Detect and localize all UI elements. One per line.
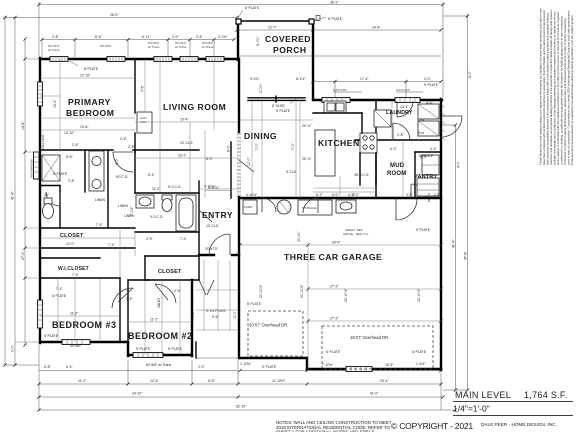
svg-text:47'-8": 47'-8"	[464, 251, 468, 260]
svg-text:2'-8": 2'-8"	[434, 193, 442, 197]
svg-text:4'-10¾": 4'-10¾"	[246, 193, 258, 197]
svg-text:6' PLATE: 6' PLATE	[326, 350, 341, 354]
overhead door 16x7 dashed	[322, 326, 433, 369]
wall: entry bottom / front wall	[199, 254, 214, 256]
extra density: kitchen hall dims	[313, 176, 376, 198]
window spec labels top	[48, 41, 214, 52]
svg-text:41'-8": 41'-8"	[11, 191, 15, 200]
svg-text:6'-8": 6'-8"	[208, 379, 216, 383]
svg-text:LINEN: LINEN	[118, 204, 129, 208]
svg-text:9'0 C.G.: 9'0 C.G.	[116, 175, 128, 179]
svg-text:9'-0¾": 9'-0¾"	[250, 77, 260, 81]
window: left wall bath	[30, 152, 40, 179]
door: garage to mud room	[396, 198, 417, 220]
fixture: mud room bench lockers	[422, 155, 439, 175]
svg-text:2'-6": 2'-6"	[120, 137, 128, 141]
svg-text:2'-6": 2'-6"	[68, 179, 76, 183]
svg-text:6' PLATE: 6' PLATE	[412, 350, 427, 354]
title: main level	[453, 390, 573, 427]
wall: hall closet bottom	[40, 247, 135, 249]
wall: closet east	[198, 256, 200, 280]
svg-text:41'-8": 41'-8"	[452, 239, 456, 248]
window: kitchen sink top wall	[322, 98, 350, 103]
svg-text:16'-8": 16'-8"	[385, 363, 394, 367]
svg-text:4'-4": 4'-4"	[426, 101, 434, 105]
svg-text:17'-4": 17'-4"	[360, 77, 369, 81]
dim line: hall bath internals	[95, 198, 188, 241]
wall: pantry top	[415, 151, 441, 153]
svg-text:SPACE - SEE O.G.: SPACE - SEE O.G.	[343, 232, 369, 236]
wall: spine center vertical	[238, 59, 240, 358]
svg-text:20'-¾": 20'-¾"	[302, 157, 312, 161]
svg-text:7'-0": 7'-0"	[255, 142, 259, 150]
svg-text:7'-4": 7'-4"	[56, 287, 64, 291]
porch post right	[309, 19, 314, 24]
dim line: bottom row 3	[39, 392, 443, 397]
svg-text:2'-8": 2'-8"	[397, 133, 405, 137]
svg-text:2'-0": 2'-0"	[172, 35, 180, 39]
svg-text:9'-0 C.G.: 9'-0 C.G.	[168, 185, 182, 189]
svg-text:6'-2": 6'-2"	[316, 193, 324, 197]
wall hatch: right wall upper	[441, 104, 445, 140]
svg-text:PRIMARY: PRIMARY	[68, 97, 111, 107]
archway: spine dashed opening	[238, 133, 241, 196]
svg-text:20'-10½": 20'-10½"	[300, 284, 304, 298]
svg-text:7'-0": 7'-0"	[291, 142, 295, 150]
svg-text:2'-9": 2'-9"	[126, 297, 134, 301]
svg-text:16'X7' Overhead DR.: 16'X7' Overhead DR.	[350, 335, 389, 340]
wall: toilet room	[40, 185, 60, 187]
svg-text:27'-2": 27'-2"	[330, 285, 339, 289]
wall: entry porch bottom slab	[196, 357, 239, 359]
disclaimer vertical text	[539, 8, 575, 165]
dim line: right section window positions	[296, 77, 441, 97]
wall: closet bed2 top	[145, 255, 199, 257]
svg-text:9' PLATE: 9' PLATE	[276, 109, 291, 113]
fireplace GAS LOG	[137, 112, 152, 133]
svg-text:5'-6": 5'-6"	[66, 155, 74, 159]
wall: garage bottom left bay	[240, 357, 307, 359]
svg-text:8'-0": 8'-0"	[206, 157, 214, 161]
svg-text:1'-10½": 1'-10½"	[240, 362, 252, 366]
fixture: pantry shelves	[417, 178, 439, 196]
svg-text:COVERED: COVERED	[265, 34, 311, 44]
extra density: misc labels scattered	[56, 118, 442, 318]
svg-text:MUD: MUD	[390, 163, 405, 169]
svg-text:w/ Trans: w/ Trans	[48, 48, 60, 52]
wall: hall bath west	[134, 150, 136, 193]
wall: top left section	[40, 58, 238, 60]
svg-text:7'-1½": 7'-1½"	[130, 206, 134, 216]
svg-text:11'-2": 11'-2"	[70, 312, 79, 316]
wall: hall east x231	[230, 142, 232, 198]
svg-text:10'-6": 10'-6"	[80, 125, 89, 129]
svg-text:w/ Trans: w/ Trans	[148, 45, 160, 49]
svg-text:30"x50": 30"x50"	[70, 344, 82, 348]
svg-text:KITCHEN: KITCHEN	[318, 138, 360, 148]
extra density: dining dim verticals	[252, 100, 296, 198]
svg-text:12'-4": 12'-4"	[150, 379, 159, 383]
wall: kitchen/mud divider	[355, 139, 376, 141]
svg-text:5'-0¾": 5'-0¾"	[259, 83, 263, 93]
fixture: hall bath toilet	[162, 195, 172, 212]
svg-text:6'-0¾": 6'-0¾"	[256, 36, 260, 46]
svg-text:51'-0": 51'-0"	[370, 392, 379, 396]
extra density: bedroom2 verticals	[145, 280, 180, 355]
svg-text:4'-0": 4'-0"	[457, 160, 461, 168]
fixture: primary vanity double sinks	[89, 151, 104, 191]
svg-text:3'0"x7'0": 3'0"x7'0"	[205, 247, 219, 251]
fixture: kitchen sink	[324, 101, 346, 113]
dim line: left outer verticals	[5, 18, 39, 366]
svg-text:9'-6": 9'-6"	[191, 310, 195, 318]
fixture: furnace	[243, 200, 257, 214]
door: bath pocket door	[44, 192, 60, 206]
svg-text:8'0 5/8" w/ Trans: 8'0 5/8" w/ Trans	[146, 363, 171, 367]
window: laundry top wall	[395, 98, 420, 103]
svg-text:LINEN: LINEN	[95, 198, 106, 202]
svg-text:HIGH FB/45: HIGH FB/45	[41, 134, 45, 150]
door: pantry door	[411, 184, 425, 198]
window: top wall w3	[154, 57, 172, 62]
dim line: bottom row 1 garage	[39, 363, 441, 371]
dim line: closet labels	[58, 233, 89, 277]
fixture: kitchen counters top	[313, 112, 362, 114]
wall: primary bath bottom / closet top	[40, 227, 135, 229]
dim line: garage internals	[240, 241, 441, 369]
door: mud room exterior right	[441, 116, 462, 137]
svg-text:3'-6": 3'-6"	[406, 193, 414, 197]
door: laundry door	[393, 123, 410, 140]
door: bedroom3 door	[112, 288, 133, 308]
wall: porch right / dining west edge	[312, 20, 314, 99]
svg-text:DALE PEER - HOME DESIGN, INC.: DALE PEER - HOME DESIGN, INC.	[481, 422, 557, 427]
dim line: second top left section	[5, 13, 237, 365]
svg-text:ROOM: ROOM	[387, 171, 406, 177]
svg-text:7'-4": 7'-4"	[108, 243, 116, 247]
svg-text:ENTRY: ENTRY	[202, 210, 233, 220]
wall: primary bath top	[40, 149, 113, 151]
wall: living room bottom / hall bath top	[135, 192, 199, 194]
svg-text:2'-9": 2'-9"	[174, 289, 182, 293]
svg-text:6' PLATE: 6' PLATE	[52, 294, 67, 298]
dim: hall width	[205, 130, 231, 198]
svg-text:12'-0": 12'-0"	[66, 242, 75, 246]
svg-text:CLOSET: CLOSET	[158, 269, 182, 275]
dim line: bottom overall 52'-10"	[39, 405, 455, 410]
svg-text:8'-0": 8'-0"	[227, 144, 231, 152]
svg-text:10' CLG.: 10' CLG.	[206, 224, 219, 228]
door: bedroom2 door	[155, 284, 176, 303]
svg-text:6'-0": 6'-0"	[390, 147, 398, 151]
svg-text:26'-0": 26'-0"	[110, 13, 119, 17]
svg-text:8'-6": 8'-6"	[95, 35, 103, 39]
door: laundry back door	[397, 101, 413, 117]
svg-text:5' PLATE: 5' PLATE	[136, 347, 151, 351]
wall: bedroom2 top	[128, 279, 148, 281]
svg-text:2'-2": 2'-2"	[198, 365, 206, 369]
svg-text:VAULT: VAULT	[157, 298, 161, 308]
svg-text:14'-4": 14'-4"	[372, 26, 381, 30]
svg-text:11'-2": 11'-2"	[150, 318, 159, 322]
door: garage storage double doors	[262, 198, 276, 212]
wall: garage top inner (mud room south)	[376, 197, 441, 199]
svg-text:20'X7' Overhead DR.: 20'X7' Overhead DR.	[249, 323, 288, 328]
door: primary bedroom to hall	[113, 152, 133, 172]
svg-text:7'-4": 7'-4"	[96, 223, 104, 227]
wall: right exterior	[440, 99, 442, 370]
svg-text:2'-0": 2'-0"	[233, 310, 237, 318]
svg-text:7'-4": 7'-4"	[72, 273, 80, 277]
svg-text:1'-4½": 1'-4½"	[416, 362, 426, 366]
porch interior labels	[250, 36, 296, 113]
svg-text:8' PLATE: 8' PLATE	[168, 347, 183, 351]
dim line: right outer verticals	[441, 14, 472, 390]
fixture: garage sink	[336, 200, 356, 213]
svg-text:6'-0": 6'-0"	[332, 193, 340, 197]
fixture: water heater	[277, 200, 291, 214]
svg-text:27'-2": 27'-2"	[330, 317, 339, 321]
dim extension connectors left	[5, 18, 40, 343]
wall: bedroom2 west step	[127, 342, 129, 356]
wall: top right section	[313, 99, 442, 101]
svg-text:BEDROOM #2: BEDROOM #2	[128, 331, 193, 341]
wall: left exterior	[39, 58, 41, 343]
wall: bedroom3 bottom	[40, 341, 128, 343]
svg-text:11'-2": 11'-2"	[78, 379, 87, 383]
svg-text:PANTRY: PANTRY	[414, 174, 437, 180]
svg-text:24": 24"	[44, 193, 50, 197]
svg-text:w/ Trans: w/ Trans	[175, 45, 187, 49]
dim line: living room internals	[135, 59, 238, 193]
svg-text:11'-2": 11'-2"	[152, 187, 161, 191]
wall: entry west	[198, 181, 200, 256]
svg-text:20'-4": 20'-4"	[380, 379, 389, 383]
svg-text:36'-2": 36'-2"	[330, 1, 339, 5]
wall: closet bed2 west	[144, 256, 146, 280]
window: top wall w4	[180, 57, 198, 62]
wall: bath/hall divider vertical	[84, 150, 86, 192]
svg-text:LAUNDRY: LAUNDRY	[386, 110, 413, 116]
dim line: bath internals	[41, 134, 128, 183]
dim line: entry internals	[199, 185, 239, 251]
wall: closet2 band	[40, 257, 100, 259]
dim line: kitchen internals	[300, 100, 376, 198]
label 8' PLATE top	[238, 6, 260, 18]
svg-text:9' PLATE: 9' PLATE	[424, 83, 439, 87]
extra density: entry stoop lines	[196, 310, 239, 330]
dim tick slashes	[3, 3, 469, 412]
dim line: garage bottom plates	[240, 350, 427, 366]
window: dining slider to porch	[248, 96, 305, 102]
svg-text:14'-8": 14'-8"	[21, 121, 25, 130]
svg-text:THREE CAR GARAGE: THREE CAR GARAGE	[284, 252, 382, 262]
svg-text:DINING: DINING	[244, 131, 277, 141]
dim line: bottom row 2	[39, 345, 441, 410]
wall: entry porch east edge	[195, 342, 197, 358]
svg-text:35'-0 C.G.: 35'-0 C.G.	[354, 173, 369, 177]
svg-text:9' PLATE: 9' PLATE	[416, 228, 431, 232]
eave line above right section	[239, 55, 441, 57]
svg-text:4'-4": 4'-4"	[430, 147, 438, 151]
svg-text:10' CLG.: 10' CLG.	[180, 141, 193, 145]
svg-text:8' PLATE: 8' PLATE	[247, 302, 262, 306]
svg-text:20'-¾": 20'-¾"	[302, 124, 312, 128]
fixture: hall bath sink	[136, 195, 154, 208]
wall: bedroom2 east	[191, 280, 193, 356]
svg-text:8'-0": 8'-0"	[468, 70, 472, 78]
dim line: laundry / mud internals	[390, 101, 434, 232]
svg-text:9'-0 C.G.: 9'-0 C.G.	[150, 215, 164, 219]
svg-text:8' PLATE: 8' PLATE	[245, 6, 260, 10]
svg-text:20'-10½": 20'-10½"	[259, 284, 263, 298]
svg-text:PORCH: PORCH	[273, 45, 307, 55]
svg-text:11'-10½": 11'-10½"	[272, 379, 286, 383]
extra density: bedroom3 verticals	[58, 278, 100, 342]
dim line: dining internals	[239, 100, 313, 198]
svg-text:12'-7": 12'-7"	[268, 26, 277, 30]
svg-text:13'-2": 13'-2"	[53, 99, 57, 108]
wall: primary bedroom / living room divider	[134, 59, 136, 113]
wall: hall bath bottom	[135, 231, 199, 233]
svg-text:BOLTS: BOLTS	[427, 193, 431, 202]
fixture: fridge	[374, 110, 391, 127]
svg-text:9'-6": 9'-6"	[212, 315, 220, 319]
svg-text:8'-1½": 8'-1½"	[296, 77, 306, 81]
dim line: misc left bottom plates	[44, 294, 183, 367]
svg-text:12'-0": 12'-0"	[247, 157, 251, 166]
svg-text:6'-11": 6'-11"	[142, 35, 151, 39]
extra density: dining labels	[255, 142, 295, 150]
svg-text:2'-8": 2'-8"	[52, 35, 60, 39]
svg-text:9'-1½ PLATE: 9'-1½ PLATE	[206, 309, 227, 313]
svg-text:1,764 S.F.: 1,764 S.F.	[524, 390, 568, 400]
svg-text:w/ Trans: w/ Trans	[202, 45, 214, 49]
svg-text:22'-10½": 22'-10½"	[344, 288, 348, 302]
svg-text:4'x4': 4'x4'	[418, 118, 425, 122]
window spec labels right section	[333, 88, 423, 92]
label: 8' PLATE leader top-left wall	[70, 61, 99, 71]
fixture: primary toilet	[43, 198, 54, 219]
svg-text:2-0'0"x4'0": 2-0'0"x4'0"	[396, 88, 410, 92]
wall: porch top	[237, 20, 314, 22]
svg-text:8' SLDR: 8' SLDR	[272, 104, 285, 108]
svg-text:6' PLATE: 6' PLATE	[328, 17, 343, 21]
svg-text:2'-9": 2'-9"	[146, 237, 154, 241]
fixture: washer dryer	[418, 104, 439, 136]
wall: closet bed2 bottom	[145, 279, 199, 281]
wall: vanity wall vertical	[107, 150, 109, 228]
fixture: verify ref space dashed	[340, 200, 369, 236]
svg-text:9' PLATE: 9' PLATE	[262, 365, 277, 369]
svg-text:2'-8": 2'-8"	[72, 143, 80, 147]
dim line: bedroom2 internals	[128, 280, 192, 355]
extra density: laundry/mud verticals	[392, 100, 403, 198]
svg-text:2'-8": 2'-8"	[128, 145, 136, 149]
svg-text:Code and all local amendments: Code and all local amendments as require…	[570, 15, 574, 165]
wall: bedroom2 bottom	[128, 354, 192, 356]
svg-text:8' PLATE: 8' PLATE	[53, 172, 68, 176]
dim line: 14'-4" right top	[313, 16, 441, 31]
fixture: kitchen counter right	[360, 113, 376, 185]
svg-text:9' CLG.: 9' CLG.	[286, 170, 297, 174]
wall: porch left	[237, 20, 239, 60]
svg-text:2'-0": 2'-0"	[424, 77, 432, 81]
wall: bedroom3 east	[119, 278, 121, 342]
window: garage rear wall	[346, 367, 372, 372]
fixture: primary shower	[42, 155, 60, 181]
svg-text:BEDROOM: BEDROOM	[66, 108, 114, 118]
svg-text:27'-0": 27'-0"	[21, 251, 25, 260]
dim line: top window positions	[42, 35, 234, 57]
overhead door 20x7 dashed	[248, 311, 303, 356]
wall: laundry west	[375, 100, 377, 198]
fixture: kitchen range/cooktop	[360, 133, 377, 153]
dim line: misc right of entry	[196, 260, 239, 330]
svg-text:© COPYRIGHT - 2021: © COPYRIGHT - 2021	[391, 421, 473, 431]
wall: garage bottom right bay	[307, 368, 441, 370]
porch post left	[236, 19, 241, 24]
door: closet bed2 doors	[199, 280, 214, 295]
svg-text:8' PLATE: 8' PLATE	[84, 67, 99, 71]
svg-text:16'-2": 16'-2"	[178, 154, 187, 158]
svg-text:2'-0": 2'-0"	[11, 344, 15, 352]
svg-text:5'0"x5'0": 5'0"x5'0"	[100, 44, 111, 48]
wall: garage top	[239, 197, 441, 199]
svg-text:1/4"=1'-0": 1/4"=1'-0"	[453, 404, 490, 414]
extra density: living room tick verticals	[190, 59, 214, 193]
svg-text:12'-10": 12'-10"	[64, 131, 75, 135]
svg-text:4'-1½": 4'-1½"	[218, 35, 228, 39]
window: top wall w2	[107, 57, 125, 62]
svg-text:30'-4": 30'-4"	[332, 241, 341, 245]
svg-text:LIVING ROOM: LIVING ROOM	[163, 102, 226, 112]
title: notes bottom left	[276, 420, 392, 432]
window: bedroom3 bottom	[62, 340, 90, 345]
svg-text:5'-4": 5'-4"	[66, 365, 74, 369]
extra density: hall area lines	[40, 228, 135, 278]
wall: laundry south / mud room top	[376, 139, 441, 141]
svg-text:7'-4": 7'-4"	[180, 237, 188, 241]
svg-text:W.I.CLOSET: W.I.CLOSET	[58, 266, 89, 272]
dim line: porch width 12'-7"	[237, 26, 313, 30]
svg-text:BEDROOM #3: BEDROOM #3	[52, 320, 117, 330]
dim line: primary bedroom internals	[40, 59, 135, 152]
extra density: primary bedroom closet lines	[40, 96, 135, 118]
svg-text:4'-0": 4'-0"	[348, 193, 356, 197]
fixture: kitchen island	[315, 130, 335, 176]
svg-text:4'x4': 4'x4'	[418, 131, 425, 135]
fixture: hall bath tub	[176, 195, 196, 231]
svg-text:2'-6": 2'-6"	[196, 35, 204, 39]
svg-text:17'-10": 17'-10"	[80, 74, 91, 78]
door: garage closet door 2	[303, 198, 318, 213]
svg-text:4'-10¾": 4'-10¾"	[204, 185, 216, 189]
svg-text:52'-10": 52'-10"	[236, 405, 247, 409]
wall: pantry west	[414, 152, 416, 198]
svg-text:20'-10": 20'-10"	[297, 231, 301, 242]
wall: garage bottom step	[306, 358, 308, 369]
svg-text:7'-6": 7'-6"	[141, 84, 145, 92]
svg-text:4'-0": 4'-0"	[115, 157, 119, 165]
window: bedroom2 bottom	[133, 353, 163, 358]
svg-text:5'-8": 5'-8"	[44, 365, 52, 369]
window: top wall w5	[206, 57, 224, 62]
svg-text:HIGH WINDOW: HIGH WINDOW	[30, 159, 34, 178]
window: left wall primary bedroom	[38, 82, 43, 106]
dim line: bedroom3 internals	[40, 278, 120, 342]
dim line: overall top 36'-2"	[39, 1, 443, 97]
